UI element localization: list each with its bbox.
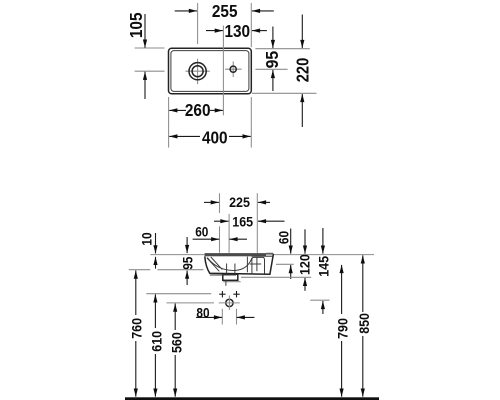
svg-text:130: 130 bbox=[225, 21, 251, 41]
witness line drain level (left) bbox=[135, 70, 165, 72]
svg-text:560: 560 bbox=[170, 332, 186, 353]
svg-text:60: 60 bbox=[276, 231, 292, 244]
svg-text:760: 760 bbox=[130, 318, 146, 339]
dim 60 horizontal bbox=[193, 238, 220, 240]
dim 560 bbox=[174, 304, 176, 331]
section hatch line 1 bbox=[207, 258, 220, 272]
pipe stub below trap bbox=[225, 280, 227, 286]
dim 610 bbox=[154, 294, 156, 328]
witness vertical 225-right bbox=[256, 193, 258, 253]
faucet hole centerline horizontal bbox=[225, 68, 242, 70]
witness line basin left edge (bottom) bbox=[168, 97, 170, 148]
svg-text:60: 60 bbox=[195, 224, 208, 240]
dim 850 bbox=[362, 255, 364, 312]
witness line 145 bottom bbox=[310, 299, 329, 301]
floor line bbox=[125, 397, 379, 400]
pipe cross horizontal bbox=[219, 302, 240, 304]
faucet hole circle bbox=[230, 66, 236, 72]
witness line underside left a bbox=[129, 269, 150, 271]
svg-text:10: 10 bbox=[140, 232, 156, 245]
dim 225 bbox=[204, 201, 219, 203]
witness line basin right edge (top) bbox=[250, 3, 252, 47]
dim 95 top view bbox=[272, 27, 274, 49]
drain vertical right bbox=[234, 264, 236, 275]
svg-text:95: 95 bbox=[181, 257, 197, 270]
svg-text:790: 790 bbox=[336, 318, 352, 339]
witness pipe level left bbox=[167, 302, 215, 304]
underside double line left bbox=[210, 274, 236, 276]
dim 80 bbox=[196, 316, 222, 318]
svg-text:260: 260 bbox=[185, 100, 211, 120]
dim 255 bbox=[175, 10, 197, 12]
witness line underside left b bbox=[158, 269, 204, 271]
faucet hole centerline vertical bbox=[232, 61, 234, 77]
drain trap rectangle bbox=[223, 274, 238, 280]
wall line bbox=[150, 254, 374, 256]
drain outer circle bbox=[189, 63, 206, 80]
bowl interior curve bbox=[207, 258, 252, 271]
pipe cross vertical bbox=[228, 296, 230, 310]
tap hole shaft outline bbox=[252, 257, 265, 273]
witness line 120 bottom bbox=[241, 276, 311, 278]
dim 95 front bbox=[186, 237, 188, 253]
tap hole cross vertical bbox=[256, 258, 258, 272]
witness line 60R bottom bbox=[276, 263, 294, 265]
drain pipe circle bbox=[226, 299, 233, 306]
svg-text:105: 105 bbox=[126, 12, 146, 38]
basin body outline bbox=[205, 254, 274, 274]
svg-text:220: 220 bbox=[293, 58, 313, 83]
svg-text:400: 400 bbox=[202, 127, 228, 147]
dim 760 bbox=[135, 271, 137, 316]
dim 130 bbox=[206, 30, 223, 32]
svg-text:145: 145 bbox=[316, 256, 332, 277]
dim 10 bbox=[155, 233, 157, 254]
dim 165 bbox=[214, 220, 229, 222]
basin rim band bbox=[205, 253, 266, 256]
basin outer outline bbox=[169, 48, 252, 94]
dim 145 bbox=[322, 228, 324, 254]
trap lower line bbox=[223, 281, 240, 283]
dim 220 bbox=[301, 15, 303, 49]
dim 790 bbox=[341, 265, 343, 314]
dim 400 bbox=[169, 135, 200, 137]
bolt cross left bbox=[219, 291, 225, 297]
svg-text:850: 850 bbox=[357, 313, 373, 334]
tap deck vertical left bbox=[246, 257, 248, 273]
svg-text:610: 610 bbox=[149, 331, 165, 352]
drain inner circle bbox=[192, 66, 203, 77]
svg-text:120: 120 bbox=[298, 254, 314, 275]
dim 105 bbox=[144, 14, 146, 48]
drain centerline horizontal bbox=[186, 70, 210, 72]
witness line drain center (top) bbox=[197, 3, 199, 44]
witness line faucet level (right) bbox=[255, 68, 287, 70]
tap hole cross horizontal bbox=[250, 263, 261, 265]
svg-text:225: 225 bbox=[229, 195, 250, 211]
bolt cross right bbox=[233, 291, 239, 297]
witness line basin top edge (right) bbox=[255, 48, 309, 50]
witness vertical 60-left lower bbox=[219, 226, 221, 253]
svg-text:95: 95 bbox=[262, 50, 282, 68]
witness 80 left bbox=[221, 309, 223, 325]
section hatch line 2 bbox=[211, 257, 223, 270]
witness vertical 225-left bbox=[219, 193, 221, 213]
drain vertical left bbox=[226, 264, 228, 275]
witness line basin right edge (bottom) bbox=[250, 97, 252, 148]
deck surface line bbox=[252, 255, 273, 257]
witness line basin bottom edge (right) bbox=[252, 92, 317, 94]
svg-text:80: 80 bbox=[196, 305, 209, 321]
basin inner rim line bbox=[171, 51, 249, 92]
svg-text:255: 255 bbox=[212, 1, 238, 21]
witness 80 right bbox=[236, 309, 238, 325]
witness bolts level left bbox=[146, 293, 211, 295]
dim 120 bbox=[304, 229, 306, 253]
basin rim top edge right bbox=[266, 252, 273, 254]
centerline through tap deck bbox=[222, 26, 224, 116]
drain centerline vertical bbox=[197, 59, 199, 84]
dim 60 right vertical bbox=[290, 229, 292, 254]
witness vertical 165-left bbox=[228, 214, 230, 253]
dim 260 bbox=[169, 109, 186, 111]
svg-text:165: 165 bbox=[232, 214, 253, 230]
witness line basin top edge (left) bbox=[135, 47, 165, 49]
